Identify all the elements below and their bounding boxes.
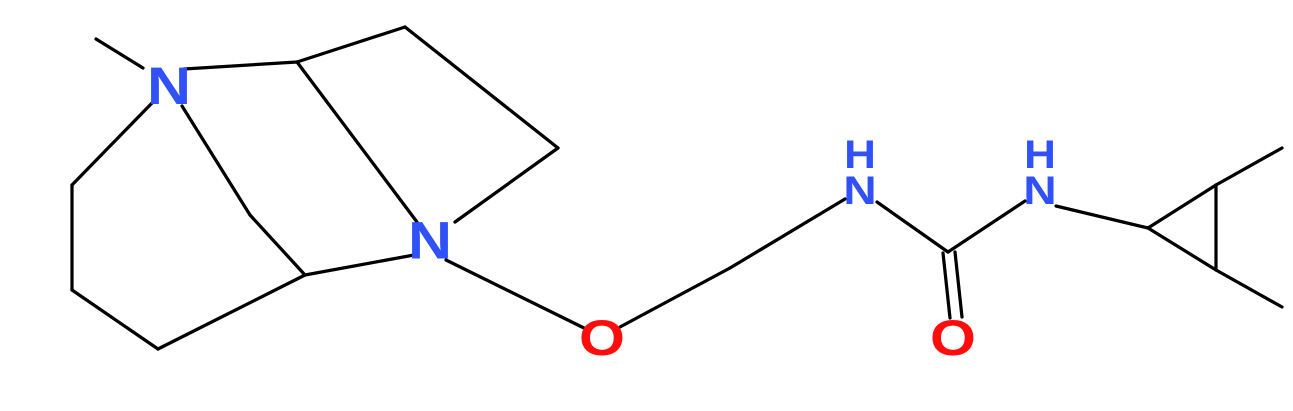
wire W2-C3 bond (405, 27, 558, 148)
svg-text:N: N (408, 211, 452, 270)
wire Hstar-W1 bond (184, 62, 297, 69)
wire N1-CH3 methyl bond (96, 39, 143, 68)
wire E-F bond (250, 215, 305, 275)
wire W1-W2 bond (297, 27, 405, 62)
wire N4-V1 bond (1056, 206, 1148, 228)
wire V1-V2 cyclopropane edge (1148, 185, 1216, 228)
wire Cstar-O1 bond (446, 260, 584, 328)
svg-text:O: O (930, 309, 976, 366)
wire C-F bond (158, 275, 305, 349)
svg-text:N: N (1023, 169, 1056, 214)
wire W1-N2 bond (297, 62, 417, 222)
wire Curea-N4 bond (948, 201, 1025, 252)
svg-text:O: O (579, 309, 625, 366)
wire V1-V3 cyclopropane edge (1148, 228, 1216, 270)
wire V2 methyl bond (1216, 148, 1282, 185)
wire B-C bond (72, 290, 158, 349)
svg-text:N: N (147, 57, 191, 116)
wire N1-A bond (72, 103, 152, 185)
wire A-B bond vertical (70, 185, 73, 290)
wire V3 methyl bond (1216, 270, 1282, 307)
wire G-N3 bond (730, 199, 845, 268)
wire V2-V3 cyclopropane edge (1214, 185, 1217, 270)
wire Hstar-E bond (182, 106, 250, 215)
wire C=O2 double bond line 2 (955, 252, 962, 317)
wire N3-Curea bond (877, 202, 948, 252)
wire C=O2 double bond line 1 (943, 253, 950, 318)
wire F-Cstar bond (305, 255, 414, 275)
wire C3-N2 bond (455, 148, 558, 222)
wire O1-G bond (620, 268, 730, 327)
svg-text:N: N (843, 169, 876, 214)
